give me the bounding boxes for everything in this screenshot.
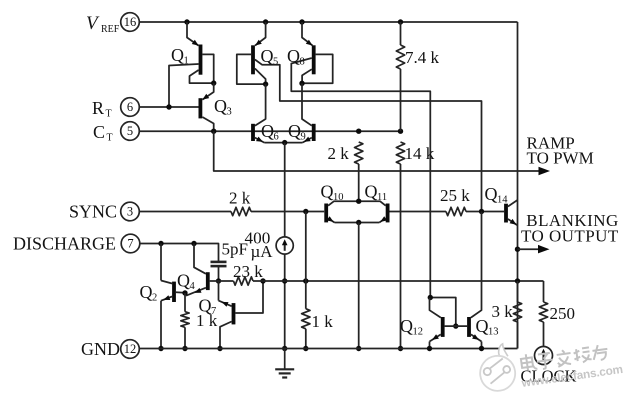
resistor 2k mid <box>355 142 363 201</box>
svg-text:6: 6 <box>127 100 133 114</box>
svg-text:SYNC: SYNC <box>69 202 117 222</box>
transistor Q11 bar <box>386 204 390 223</box>
transistor Q12 bar <box>441 317 445 337</box>
wire Q6-Q9 emitter rail <box>264 142 302 144</box>
svg-text:Q: Q <box>171 45 184 65</box>
pin DISCHARGE label <box>13 234 116 254</box>
node CT-2k <box>356 129 361 134</box>
node emitter rail center <box>356 220 361 225</box>
node 23k-1k mid <box>303 278 308 283</box>
svg-text:2: 2 <box>152 293 157 304</box>
svg-text:TO PWM: TO PWM <box>527 149 594 168</box>
node 14k-GND <box>398 346 403 351</box>
resistor 1k mid <box>302 212 310 349</box>
node CT-14k <box>398 129 403 134</box>
pin SYNC label <box>69 202 117 222</box>
node Q7 base-23k <box>260 278 265 283</box>
transistor Q14 collector <box>508 200 518 207</box>
svg-text:6: 6 <box>274 132 279 143</box>
label Q6 <box>261 121 279 143</box>
transistor Q11 emitter <box>379 216 387 222</box>
node emitter rail center <box>282 140 287 145</box>
transistor Q1 base to RT <box>169 64 199 107</box>
label Q13 <box>476 316 499 338</box>
svg-text:10: 10 <box>333 192 344 203</box>
transistor Q7 emitter <box>219 281 232 307</box>
wire DISCHARGE line <box>140 244 219 262</box>
svg-text:25 k: 25 k <box>440 186 470 205</box>
resistor 7.4k <box>396 22 404 131</box>
svg-text:12: 12 <box>124 342 137 356</box>
svg-text:3: 3 <box>127 205 133 219</box>
resistor 250 <box>539 281 547 347</box>
node source-GND <box>282 346 287 351</box>
node 1k-GND <box>182 346 187 351</box>
label uA <box>251 242 274 261</box>
node Q7 collector GND <box>217 346 222 351</box>
pin RT label <box>92 98 112 120</box>
label Q4 <box>177 271 196 293</box>
transistor Q6 bar <box>251 124 255 141</box>
node Q14 base <box>479 209 484 214</box>
wire RT line <box>140 106 199 108</box>
wire Q11 base to 25k <box>390 211 447 213</box>
label BLANKING <box>526 211 618 230</box>
svg-text:7.4 k: 7.4 k <box>405 48 440 67</box>
transistor Q10 emitter <box>327 216 335 222</box>
transistor Q3 collector <box>202 117 213 131</box>
svg-text:23 k: 23 k <box>233 262 263 281</box>
svg-text:3: 3 <box>227 107 232 118</box>
wire Q12 collector-base tie <box>430 298 456 327</box>
node 2k-GND <box>356 346 361 351</box>
node discharge-Q4 <box>191 241 196 246</box>
pin 5 CT terminal <box>121 122 140 141</box>
svg-text:8: 8 <box>300 57 305 68</box>
node CT-Q3 <box>211 129 216 134</box>
svg-text:Q: Q <box>485 184 498 204</box>
label 7.4k <box>405 48 440 67</box>
svg-text:2 k: 2 k <box>229 189 251 208</box>
node VREF-7.4k <box>398 19 403 24</box>
node VREF-Q8 <box>299 19 304 24</box>
svg-text:Q: Q <box>287 46 300 66</box>
label Q7 <box>199 296 217 318</box>
node Q8 collector tie <box>299 81 304 86</box>
watermark logo and text <box>476 328 623 396</box>
transistor Q13 emitter <box>471 334 482 348</box>
transistor Q3 bar <box>199 98 203 118</box>
transistor Q2 bar <box>172 282 176 302</box>
transistor Q10 bar <box>324 204 328 223</box>
label 2k sync <box>229 189 251 208</box>
label TO PWM <box>527 149 594 168</box>
svg-text:5: 5 <box>127 124 133 138</box>
wire GND rail <box>140 348 518 350</box>
transistor Q8 bar <box>312 45 316 74</box>
clock terminal circle <box>535 347 553 365</box>
svg-text:7: 7 <box>211 306 216 317</box>
wire emitter rail to GND <box>358 223 360 349</box>
node source-23k <box>282 278 287 283</box>
transistor Q8 emitter <box>302 22 313 46</box>
label Q11 <box>365 182 388 204</box>
ground symbol <box>275 349 294 378</box>
transistor Q8 base loop <box>302 54 333 83</box>
transistor Q14 emitter <box>508 219 518 226</box>
wire 25k to Q14 base <box>466 211 504 213</box>
svg-text:11: 11 <box>377 192 387 203</box>
svg-text:C: C <box>93 122 105 142</box>
transistor Q8 collector 2 to Q12 <box>291 58 430 298</box>
svg-text:Q: Q <box>476 316 489 336</box>
transistor Q13 bar <box>467 317 471 337</box>
label Q12 <box>400 316 423 338</box>
label Q5 <box>261 46 279 68</box>
pin 12 GND terminal <box>121 340 140 359</box>
wire Q4 collector riser <box>194 244 206 274</box>
svg-text:13: 13 <box>488 327 499 338</box>
pin 3 SYNC terminal <box>121 202 140 221</box>
transistor Q9 bar <box>312 124 316 141</box>
transistor Q4 emitter <box>186 288 206 296</box>
transistor Q4 base <box>210 280 219 282</box>
label 2k mid <box>328 144 350 163</box>
svg-text:Q: Q <box>261 121 274 141</box>
node Q14 emitter blanking tap <box>515 247 520 252</box>
transistor Q6 emitter <box>255 137 264 143</box>
node Q4 emitter tie <box>182 290 187 295</box>
wire SYNC line right <box>251 211 324 213</box>
transistor Q7 bar <box>232 303 236 324</box>
svg-text:250: 250 <box>550 304 576 323</box>
label 5pF <box>222 240 248 259</box>
svg-text:14 k: 14 k <box>405 144 435 163</box>
node Q12 tie <box>428 295 433 300</box>
svg-text:Q: Q <box>177 271 190 291</box>
svg-text:REF: REF <box>101 24 120 35</box>
svg-text:T: T <box>106 109 112 120</box>
svg-text:µA: µA <box>251 242 274 261</box>
pin CT label <box>93 122 113 144</box>
label Q14 <box>485 184 509 206</box>
transistor Q13 collector <box>471 212 482 318</box>
wire Q8 to Q9 collector <box>302 83 312 125</box>
node Q12-Q13 base center <box>453 323 458 328</box>
wire Q10-Q11 emitter rail <box>335 222 380 224</box>
resistor 1k left <box>181 293 189 349</box>
svg-text:14: 14 <box>497 195 508 206</box>
svg-text:5pF: 5pF <box>222 240 248 259</box>
svg-text:Q: Q <box>365 182 378 202</box>
svg-text:9: 9 <box>301 132 306 143</box>
svg-text:Q: Q <box>261 46 274 66</box>
capacitor 5pF <box>211 262 227 281</box>
transistor Q3 emitter <box>202 83 213 100</box>
label TO OUTPUT <box>521 227 619 246</box>
transistor Q14 bar <box>504 204 508 223</box>
svg-text:Q: Q <box>288 121 301 141</box>
wire emitters to current source <box>284 143 286 237</box>
svg-text:Q: Q <box>400 316 413 336</box>
svg-text:2 k: 2 k <box>328 144 350 163</box>
resistor 2k sync <box>231 207 251 215</box>
svg-text:1: 1 <box>184 56 189 67</box>
svg-text:T: T <box>107 133 113 144</box>
label 14k <box>405 144 435 163</box>
svg-text:Q: Q <box>321 182 334 202</box>
node Q12 emitter GND <box>427 346 432 351</box>
transistor Q5 collector 2 to Q14 base <box>255 60 482 212</box>
transistor Q1 collector <box>190 70 214 83</box>
wire SYNC line left <box>140 211 232 213</box>
label Q3 <box>214 96 232 118</box>
node Q2 emitter GND <box>158 346 163 351</box>
transistor Q1 emitter <box>187 22 199 46</box>
transistor Q2 base <box>176 291 185 294</box>
svg-text:1 k: 1 k <box>312 312 334 331</box>
pin VREF label <box>86 13 120 35</box>
transistor Q7 base <box>235 281 263 313</box>
node VREF-Q5 <box>263 19 268 24</box>
transistor Q12 emitter <box>430 334 441 348</box>
svg-text:GND: GND <box>81 339 120 359</box>
label 250 <box>550 304 576 323</box>
svg-text:5: 5 <box>273 57 278 68</box>
wire Q10-Q11 collector rail <box>328 201 386 206</box>
svg-text:3 k: 3 k <box>492 302 514 321</box>
label Q9 <box>288 121 306 143</box>
wire Q12-Q13 base line <box>445 325 468 327</box>
transistor Q5 collector 1 <box>255 69 266 85</box>
transistor Q5 bar <box>251 45 255 74</box>
label Q2 <box>140 282 158 304</box>
current source 400uA circle <box>276 237 293 254</box>
label Q10 <box>321 182 344 204</box>
label 1k mid <box>312 312 334 331</box>
svg-text:TO OUTPUT: TO OUTPUT <box>521 227 619 246</box>
node RT-Q1 base <box>166 104 171 109</box>
resistor 25k <box>446 207 466 215</box>
svg-text:Q: Q <box>199 296 212 316</box>
label 25k <box>440 186 470 205</box>
wire current source to 23k line <box>284 254 286 348</box>
resistor 14k <box>396 142 404 349</box>
svg-text:16: 16 <box>124 15 137 29</box>
node SYNC-1k <box>303 209 308 214</box>
pin GND label <box>81 339 120 359</box>
transistor Q7 collector <box>220 322 232 349</box>
svg-text:Q: Q <box>214 96 227 116</box>
wire RAMP line <box>214 131 550 175</box>
node Q1 collector tie <box>211 80 216 85</box>
transistor Q2 collector <box>161 281 172 284</box>
wire Q5 to Q6 collector <box>255 84 266 126</box>
label Q1 <box>171 45 189 67</box>
svg-text:12: 12 <box>413 327 424 338</box>
label Q8 <box>287 46 305 68</box>
svg-text:Q: Q <box>140 282 153 302</box>
node 23k-3k <box>515 278 520 283</box>
label 1k left <box>196 311 218 330</box>
pin 16 VREF terminal <box>121 13 140 32</box>
label 23k <box>233 262 263 281</box>
transistor Q9 emitter <box>302 137 311 143</box>
transistor Q5 base loop <box>237 54 266 84</box>
label 400 <box>245 229 271 248</box>
svg-text:7: 7 <box>127 237 133 251</box>
wire BLANKING arrow <box>518 245 550 254</box>
transistor Q5 emitter <box>255 22 266 46</box>
node Q5 collector tie <box>263 81 268 86</box>
resistor 23k <box>234 277 254 285</box>
node discharge-Q2 <box>158 241 163 246</box>
resistor 3k <box>513 281 521 349</box>
transistor Q8 collector 1 <box>302 69 312 83</box>
node VREF-Q1 <box>184 19 189 24</box>
pin 7 DISCHARGE terminal <box>121 234 140 253</box>
node 1k mid GND <box>303 346 308 351</box>
wire VREF rail <box>140 21 518 23</box>
svg-text:4: 4 <box>190 281 196 292</box>
transistor Q1 bar <box>199 45 203 75</box>
transistor Q12 collector <box>430 298 441 318</box>
wire CT line <box>140 130 401 132</box>
label CLOCK <box>521 367 577 386</box>
svg-text:R: R <box>92 98 104 118</box>
pin 6 RT terminal <box>121 98 140 117</box>
wire Q2 collector riser <box>160 244 162 281</box>
node collector rail center <box>356 199 361 204</box>
svg-text:DISCHARGE: DISCHARGE <box>13 234 116 254</box>
transistor Q4 bar <box>206 272 210 290</box>
node cap-Q4 base-23k <box>216 278 221 283</box>
transistor Q2 emitter <box>161 295 172 348</box>
label RAMP <box>527 134 575 153</box>
wire 23k line long <box>253 280 544 282</box>
wire 23k line segment <box>219 280 234 282</box>
wire VREF right drop to Q14 <box>517 22 519 349</box>
label 3k <box>492 302 514 321</box>
wire Q1 base-collector loop <box>202 54 213 83</box>
node Q13 emitter GND <box>479 346 484 351</box>
